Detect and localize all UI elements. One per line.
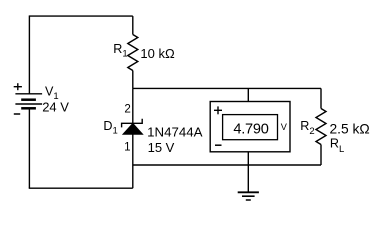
svg-text:R1: R1 [113,42,127,60]
zener diode D1 anode triangle [123,123,143,134]
voltmeter minus mark [215,144,222,146]
svg-text:D1: D1 [103,119,117,137]
wire: output node down to D1 cathode [132,88,134,123]
svg-text:2: 2 [124,103,130,116]
wire: R1 top stub [132,16,134,34]
wire: bottom middle horizontal D1 anode to R2 bottom [133,164,321,166]
voltmeter plus mark [214,106,222,114]
voltmeter U1 outer box [210,102,290,152]
svg-text:R2: R2 [300,119,314,137]
battery plus sign [14,83,22,90]
wire: top segment V1 to R1 [29,15,132,17]
wire: voltmeter bottom stub [247,152,249,165]
wire: voltmeter top stub [247,88,249,101]
resistor R1 [128,35,138,71]
voltmeter U1 inner display box [223,115,278,140]
wire: R2 top stub [320,88,322,108]
battery minus sign [14,113,20,115]
wire: R1 bottom to output node [132,71,134,89]
wire: bottom-left horizontal V1 to D1 anode column [29,187,133,189]
ground symbol [238,165,259,200]
wire: left vertical from top corner down to battery positive plate [28,15,30,93]
wire: R2 bottom stub [320,145,322,166]
wire: output node horizontal to R2 top [133,87,321,89]
svg-text:10 kΩ: 10 kΩ [140,46,175,61]
svg-text:RL: RL [330,137,344,156]
svg-text:15 V: 15 V [148,140,175,155]
battery V1 plates [15,94,42,109]
wire: D1 anode down to lower junction [132,134,134,165]
svg-text:V: V [281,122,288,132]
svg-text:2.5 kΩ: 2.5 kΩ [330,121,370,136]
resistor R2 [316,109,326,145]
svg-text:1N4744A: 1N4744A [147,125,203,140]
zener diode D1 cathode bar with bent ends [122,119,143,128]
wire: battery negative down to bottom-left corner [28,108,30,188]
wire: lower junction down to bottom-left wire [132,165,134,188]
svg-text:24 V: 24 V [42,99,69,114]
svg-text:4.790: 4.790 [233,121,268,137]
svg-text:1: 1 [124,141,130,154]
